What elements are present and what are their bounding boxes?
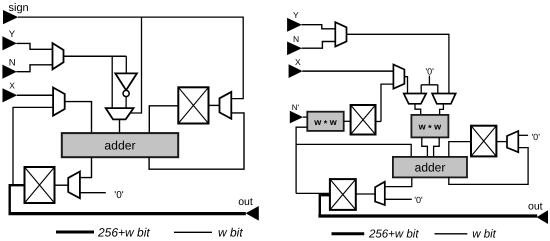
input connector X right [289, 64, 303, 78]
legend thick sample left [56, 231, 94, 234]
inverter U1 [115, 73, 137, 90]
mux M8 down left [404, 94, 427, 104]
multiplier U3 box [178, 87, 208, 123]
adder U8 [393, 157, 467, 178]
mux M6 Y/N right [335, 22, 346, 46]
mux M1 Y/N [53, 43, 64, 69]
wire U5 output b [434, 137, 440, 157]
mux M9 down right [432, 94, 456, 104]
register U9 diagonals [471, 126, 496, 157]
svg-text:'0': '0' [114, 190, 123, 201]
wire mux M9 output [440, 104, 444, 115]
svg-text:N: N [293, 34, 299, 44]
input connector N [2, 65, 16, 79]
wire register U9 to adder [449, 142, 471, 157]
wire into inverter [125, 56, 127, 73]
input connector sign [3, 10, 18, 24]
input connector Y [2, 36, 16, 50]
wire mux M10 output [496, 141, 507, 143]
register U4 diagonals [25, 167, 55, 203]
wire N to mux M1 [17, 65, 53, 72]
wire mux M6 output to down-mux [347, 34, 449, 93]
register U4 box [25, 167, 55, 203]
wire mux M3 output to adder [119, 119, 121, 133]
svg-text:'0': '0' [425, 66, 434, 76]
mux M10 [507, 131, 518, 152]
output connector out [246, 206, 259, 221]
mux M11 [375, 182, 385, 205]
mux M2 X/feedback [53, 88, 65, 116]
svg-text:adder: adder [415, 160, 446, 174]
svg-text:'0': '0' [531, 132, 540, 142]
mux M7 right [393, 65, 404, 89]
wire adder output to mux M4 [80, 157, 92, 177]
svg-text:out: out [528, 200, 543, 212]
wire '0' tee [421, 76, 438, 94]
adder U2 [62, 133, 178, 157]
wire feedback to U6 [296, 127, 307, 193]
wire mux M7 output [404, 77, 407, 94]
register U7 diagonals [351, 105, 376, 135]
multiplier U5 w*w box [411, 115, 448, 137]
svg-text:w bit: w bit [218, 225, 243, 239]
wire U6 output [344, 120, 351, 122]
svg-text:Y: Y [9, 29, 16, 40]
register U10 box [330, 179, 356, 210]
svg-text:X: X [295, 57, 301, 67]
input connector Y right [287, 18, 302, 32]
wire U10 output thin feedback [296, 192, 330, 194]
svg-text:Y: Y [293, 10, 299, 20]
svg-text:X: X [9, 81, 15, 91]
wire register U4 output thick [10, 185, 25, 213]
wire N' to U6 [303, 116, 307, 118]
multiplier U6 w*w box [307, 112, 343, 131]
register U10 diagonals [330, 179, 356, 210]
wire out bus right thick [318, 214, 537, 217]
mux M3 vertical [106, 108, 134, 119]
wire '0' to mux M4 [80, 192, 106, 194]
register U7 box [351, 105, 376, 135]
wire feedback to mux M2 [13, 107, 53, 184]
register U9 box [471, 126, 496, 157]
wire inverter output [125, 97, 127, 109]
svg-text:N: N [9, 57, 16, 68]
wire multiplier U3 to mux M5 [209, 104, 220, 106]
svg-text:w * w: w * w [418, 122, 443, 134]
input connector N right [287, 42, 302, 56]
wire Y to mux M1 [17, 43, 53, 49]
svg-text:adder: adder [104, 139, 135, 153]
wire sign net [18, 17, 243, 99]
wire mux M1 output [64, 55, 127, 57]
wire X to mux M2 [17, 94, 53, 96]
wire adder output to mux M11 [385, 177, 412, 186]
wire mux M2 output to adder [65, 102, 92, 134]
wire adder output to mux M5 [149, 113, 244, 169]
mux M4 [68, 172, 80, 199]
mux M5 [220, 92, 232, 119]
svg-text:w * w: w * w [313, 117, 338, 129]
wire mux M11 output [356, 193, 375, 195]
wire adder output to mux M10 [449, 148, 528, 185]
svg-text:256+w bit: 256+w bit [368, 228, 419, 240]
svg-text:out: out [238, 196, 253, 208]
svg-text:256+w bit: 256+w bit [97, 225, 150, 239]
wire U7 output to mux M7 [376, 121, 382, 123]
input connector N' [290, 111, 303, 124]
legend thin sample left [174, 231, 212, 233]
svg-text:w bit: w bit [472, 228, 496, 240]
wire sign select branch [130, 17, 141, 113]
wire direct branch to mux M3 [111, 56, 113, 108]
inverter U1 bubble [123, 90, 129, 96]
wire mux M4 output [55, 184, 69, 186]
legend thin sample right [435, 233, 468, 235]
svg-text:sign: sign [9, 2, 29, 14]
svg-text:'0': '0' [414, 195, 423, 205]
multiplier U3 diagonals [178, 87, 208, 123]
svg-text:N': N' [292, 103, 300, 112]
wire '0' to mux M10 [518, 134, 528, 136]
wire X to mux M7 [302, 70, 393, 72]
wire U5 output a [422, 137, 428, 157]
wire adder node to multiplier [149, 106, 178, 133]
wire feedback to mux M7 [381, 84, 393, 121]
wire feedback to adder right [296, 144, 411, 157]
input connector X [3, 88, 18, 102]
wire U10 output thick [320, 195, 330, 216]
legend thick sample right [332, 232, 365, 235]
wire Y to mux M6 [302, 25, 336, 29]
wire out bus thick [9, 212, 246, 215]
wire mux M8 output [415, 104, 421, 115]
output connector out right [537, 210, 548, 224]
wire N to mux M6 [302, 42, 336, 49]
wire '0' to mux M11 [385, 198, 412, 200]
